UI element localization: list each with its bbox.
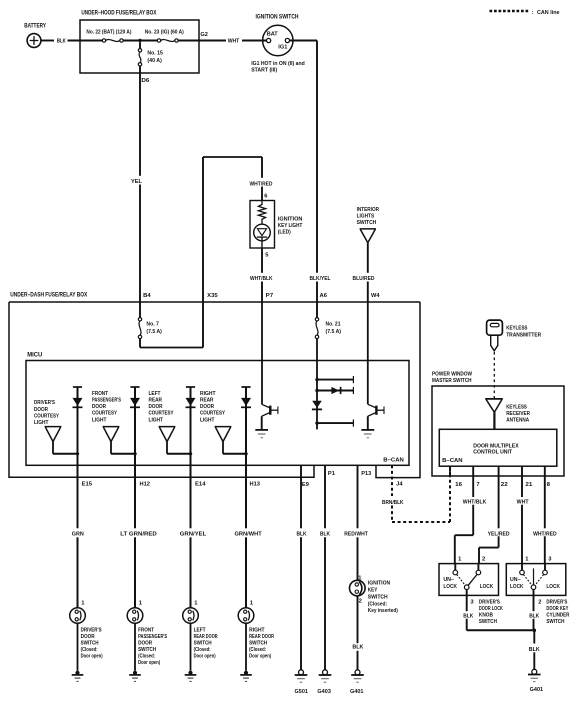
svg-text:TRANSMITTER: TRANSMITTER (506, 333, 542, 339)
svg-text:(7.5 A): (7.5 A) (326, 329, 342, 335)
svg-text:BLK: BLK (320, 532, 331, 538)
svg-text:A6: A6 (320, 293, 328, 299)
svg-text:SWITCH: SWITCH (81, 641, 99, 647)
svg-text:Door open): Door open) (194, 654, 216, 660)
svg-text:LIGHT: LIGHT (200, 417, 215, 423)
svg-text:P13: P13 (361, 471, 372, 477)
svg-text:YEL: YEL (131, 179, 142, 185)
svg-text:E9: E9 (302, 482, 310, 488)
svg-text:E14: E14 (195, 482, 206, 488)
svg-text:(7.5 A): (7.5 A) (146, 329, 162, 335)
svg-text:Door open): Door open) (249, 654, 271, 660)
svg-text:(LED): (LED) (278, 230, 291, 236)
svg-text:DRIVER'S: DRIVER'S (81, 628, 102, 634)
svg-text:LT GRN/RED: LT GRN/RED (120, 532, 157, 538)
svg-text:BLK: BLK (463, 614, 474, 620)
svg-text:Door open): Door open) (138, 660, 160, 666)
svg-text:WHT/BLK: WHT/BLK (250, 276, 273, 282)
svg-text:2: 2 (482, 557, 485, 563)
svg-text:DRIVER'S: DRIVER'S (34, 400, 55, 406)
svg-text:WHT: WHT (517, 499, 529, 505)
svg-text:(Closed:: (Closed: (368, 601, 387, 607)
svg-text:D6: D6 (141, 78, 150, 84)
svg-text:2: 2 (359, 599, 362, 605)
svg-text:REAR DOOR: REAR DOOR (194, 634, 219, 640)
svg-text:No. 21: No. 21 (326, 322, 342, 328)
svg-text:BAT: BAT (267, 31, 278, 37)
svg-text:DOOR: DOOR (200, 404, 215, 410)
svg-text:7: 7 (476, 482, 479, 488)
svg-text:(Closed:: (Closed: (249, 647, 266, 653)
svg-text:CAN line: CAN line (537, 10, 560, 16)
svg-text:IG1 HOT in ON (II) and: IG1 HOT in ON (II) and (251, 61, 305, 67)
svg-text:REAR DOOR: REAR DOOR (249, 634, 275, 640)
svg-text:BLK: BLK (352, 645, 364, 651)
svg-text:21: 21 (525, 482, 533, 488)
svg-text:RIGHT: RIGHT (249, 628, 265, 634)
svg-text:DOOR KEY: DOOR KEY (546, 606, 568, 612)
svg-text:IGNITION: IGNITION (368, 581, 390, 587)
svg-text:KEYLESS: KEYLESS (506, 404, 527, 410)
svg-text:LIGHT: LIGHT (149, 417, 164, 423)
svg-text:IG1: IG1 (278, 45, 288, 51)
svg-text:LIGHT: LIGHT (34, 420, 49, 426)
svg-text:H13: H13 (250, 482, 261, 488)
svg-text:BLK: BLK (57, 39, 67, 45)
svg-text:RIGHT: RIGHT (200, 391, 216, 397)
svg-text:P1: P1 (328, 471, 336, 477)
svg-text:WHT/RED: WHT/RED (250, 181, 273, 187)
svg-text:YEL/RED: YEL/RED (488, 531, 510, 537)
svg-text:DRIVER'S: DRIVER'S (479, 600, 500, 606)
svg-text:H12: H12 (140, 482, 151, 488)
svg-text:DRIVER'S: DRIVER'S (546, 600, 567, 606)
svg-text:X35: X35 (207, 293, 218, 299)
svg-text:FRONT: FRONT (138, 628, 154, 634)
svg-text:G403: G403 (317, 689, 331, 695)
svg-text:PASSENGER'S: PASSENGER'S (92, 398, 121, 404)
svg-text:(Closed:: (Closed: (81, 647, 98, 653)
svg-text:WHT/BLK: WHT/BLK (463, 499, 487, 505)
svg-text:COURTESY: COURTESY (149, 411, 174, 417)
svg-text:W4: W4 (371, 293, 380, 299)
svg-text:MASTER SWITCH: MASTER SWITCH (432, 378, 472, 384)
svg-text:BLK: BLK (297, 532, 308, 538)
svg-text:GRN/WHT: GRN/WHT (235, 532, 263, 538)
svg-text:UNDER–HOOD FUSE/RELAY BOX: UNDER–HOOD FUSE/RELAY BOX (81, 10, 156, 17)
svg-text:No. 22 (BAT) (120 A): No. 22 (BAT) (120 A) (86, 29, 131, 35)
svg-text:BLK: BLK (529, 647, 541, 653)
svg-text:DOOR LOCK: DOOR LOCK (479, 606, 504, 612)
svg-text:COURTESY: COURTESY (34, 413, 59, 419)
svg-text:KEY: KEY (368, 588, 378, 594)
svg-text:DOOR: DOOR (138, 641, 153, 647)
svg-text:GRN: GRN (72, 532, 84, 538)
svg-text:CONTROL UNIT: CONTROL UNIT (473, 449, 512, 455)
svg-text:LOCK: LOCK (546, 584, 560, 590)
svg-text:No. 15: No. 15 (147, 51, 163, 57)
svg-text:UN–: UN– (510, 577, 521, 583)
svg-text:UNDER–DASH FUSE/RELAY BOX: UNDER–DASH FUSE/RELAY BOX (10, 292, 87, 299)
svg-text:POWER WINDOW: POWER WINDOW (432, 372, 472, 378)
svg-text:RECEIVER: RECEIVER (506, 411, 530, 417)
svg-text:LIGHT: LIGHT (92, 417, 107, 423)
svg-text:(Closed:: (Closed: (138, 654, 155, 660)
svg-text:BATTERY: BATTERY (24, 23, 46, 29)
svg-text:LOCK: LOCK (510, 584, 524, 590)
svg-text:IGNITION SWITCH: IGNITION SWITCH (256, 15, 299, 21)
svg-text:(40 A): (40 A) (147, 58, 162, 64)
svg-text:UN–: UN– (443, 577, 454, 583)
svg-text:BLK/YEL: BLK/YEL (310, 276, 331, 282)
svg-text:DOOR MULTIPLEX: DOOR MULTIPLEX (473, 443, 518, 449)
svg-text:LEFT: LEFT (149, 391, 161, 397)
svg-text:J4: J4 (396, 482, 403, 488)
svg-text:16: 16 (455, 482, 463, 488)
svg-text:FRONT: FRONT (92, 391, 108, 397)
svg-text:SWITCH: SWITCH (194, 641, 212, 647)
svg-text:REAR: REAR (149, 398, 163, 404)
svg-text:LIGHTS: LIGHTS (357, 214, 375, 220)
svg-text:WHT/RED: WHT/RED (533, 531, 557, 537)
svg-text:ANTENNA: ANTENNA (506, 418, 530, 424)
svg-text:DOOR: DOOR (81, 634, 96, 640)
svg-text:RED/WHT: RED/WHT (344, 532, 368, 538)
svg-text:DOOR: DOOR (92, 404, 107, 410)
svg-text:SWITCH: SWITCH (546, 619, 564, 625)
svg-text:G401: G401 (350, 689, 364, 695)
svg-text:MICU: MICU (27, 351, 42, 358)
svg-text:G401: G401 (530, 687, 544, 693)
svg-text:KEYLESS: KEYLESS (506, 326, 527, 332)
svg-text:COURTESY: COURTESY (92, 411, 117, 417)
svg-text::: : (532, 10, 534, 16)
svg-text:DOOR: DOOR (34, 407, 49, 413)
svg-text:REAR: REAR (200, 398, 214, 404)
svg-text:G501: G501 (295, 689, 309, 695)
svg-text:COURTESY: COURTESY (200, 411, 225, 417)
svg-text:SWITCH: SWITCH (249, 641, 267, 647)
svg-text:DOOR: DOOR (149, 404, 164, 410)
svg-text:E15: E15 (82, 482, 93, 488)
svg-text:LOCK: LOCK (480, 584, 494, 590)
svg-text:SWITCH: SWITCH (479, 619, 497, 625)
svg-text:SWITCH: SWITCH (357, 220, 377, 226)
svg-text:IGNITION: IGNITION (278, 217, 303, 223)
svg-text:INTERIOR: INTERIOR (357, 207, 380, 213)
svg-text:(Closed:: (Closed: (194, 647, 211, 653)
svg-text:BRN/BLK: BRN/BLK (382, 500, 404, 506)
svg-text:WHT: WHT (228, 39, 240, 45)
svg-text:START (III): START (III) (251, 68, 277, 74)
svg-text:P7: P7 (266, 293, 274, 299)
svg-text:Key inserted): Key inserted) (368, 608, 398, 614)
svg-text:No. 23 (IG) (60 A): No. 23 (IG) (60 A) (145, 29, 184, 35)
svg-text:BLU/RED: BLU/RED (353, 276, 375, 282)
svg-text:KNOB: KNOB (479, 612, 493, 618)
svg-text:PASSENGER'S: PASSENGER'S (138, 634, 167, 640)
svg-text:KEY LIGHT: KEY LIGHT (278, 223, 303, 229)
svg-text:LEFT: LEFT (194, 628, 206, 634)
svg-text:22: 22 (501, 482, 508, 488)
svg-text:B–CAN: B–CAN (383, 458, 404, 464)
svg-text:B–CAN: B–CAN (442, 458, 463, 464)
svg-text:BLK: BLK (529, 614, 540, 620)
svg-text:No. 7: No. 7 (146, 322, 159, 328)
svg-text:GRN/YEL: GRN/YEL (180, 532, 207, 538)
svg-text:LOCK: LOCK (443, 584, 457, 590)
svg-text:G2: G2 (200, 32, 208, 38)
svg-text:CYLINDER: CYLINDER (546, 612, 570, 618)
svg-text:SWITCH: SWITCH (368, 594, 388, 600)
svg-text:2: 2 (538, 600, 541, 606)
svg-text:B4: B4 (143, 293, 151, 299)
svg-text:Door open): Door open) (81, 654, 103, 660)
svg-text:SWITCH: SWITCH (138, 647, 156, 653)
